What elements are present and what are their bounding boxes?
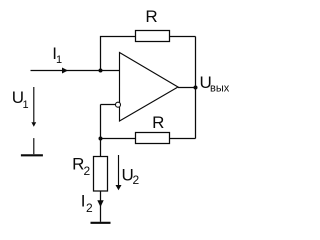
node A junction dot bbox=[99, 69, 103, 73]
op-amp inverting input bubble bbox=[116, 102, 121, 107]
current arrow I2 bbox=[97, 200, 103, 207]
op-amp U1 triangle bbox=[120, 53, 179, 122]
output node junction dot bbox=[194, 86, 198, 90]
node B junction dot bbox=[99, 137, 103, 141]
svg-text:2: 2 bbox=[84, 164, 91, 178]
voltage arrow U1 bbox=[31, 87, 36, 127]
resistor R (lower) bbox=[136, 133, 170, 144]
ground (bottom, R2) bbox=[91, 222, 111, 224]
svg-text:R: R bbox=[152, 113, 164, 132]
voltage arrow U2 bbox=[116, 155, 122, 190]
wire input I1 to op-amp bbox=[31, 70, 120, 72]
svg-text:I: I bbox=[81, 192, 86, 211]
svg-text:2: 2 bbox=[133, 173, 140, 187]
wire node A up to feedback resistor R bbox=[101, 37, 136, 71]
ground (left, input reference) bbox=[21, 138, 43, 155]
wire inverting input vertical bbox=[100, 105, 102, 139]
wire rail to lower resistor R bbox=[170, 138, 196, 140]
wire lower resistor R to node B bbox=[101, 138, 136, 140]
wire feedback R to output rail bbox=[170, 36, 196, 38]
wire op-amp output to rail bbox=[178, 87, 196, 89]
wire R2 to ground bbox=[100, 191, 102, 222]
wire node B to R2 bbox=[100, 139, 102, 157]
svg-text:R: R bbox=[145, 7, 157, 26]
wire inverting input horizontal bbox=[101, 104, 116, 106]
current arrow I1 bbox=[62, 68, 68, 74]
svg-text:вых: вых bbox=[210, 83, 230, 95]
svg-text:2: 2 bbox=[86, 201, 93, 215]
resistor R (feedback, top) bbox=[136, 31, 170, 42]
svg-text:1: 1 bbox=[56, 54, 62, 66]
wire output rail vertical bbox=[195, 37, 197, 139]
svg-text:1: 1 bbox=[23, 99, 29, 111]
resistor R2 (vertical) bbox=[94, 157, 108, 192]
